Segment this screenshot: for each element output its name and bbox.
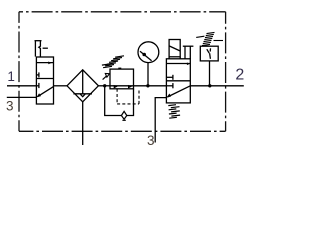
relief valve RV1 [200, 46, 218, 86]
wire V1 out to filter [54, 85, 68, 87]
regulator R1 vent loop [105, 86, 134, 116]
wire V2 out to port 2 [190, 85, 244, 87]
wire filter to regulator [98, 85, 110, 87]
filter F1 (water separator) [67, 70, 98, 102]
svg-text:2: 2 [235, 67, 244, 84]
valve V2 pilot plunger [183, 46, 194, 59]
regulator R1 pilot dashed passage [117, 89, 139, 104]
valve V2 solenoid [169, 40, 180, 59]
wire port1 line [7, 85, 36, 87]
regulator R1 body [110, 69, 134, 89]
regulator R1 top tab [118, 68, 121, 70]
relief valve RV1 spring [196, 32, 223, 45]
node J2 (gauge tap) [146, 84, 149, 87]
valve V1 blocked port T (port 1) [36, 83, 39, 88]
enclosure border (dash-dot) [19, 12, 226, 132]
node J3 (relief tap) [208, 84, 211, 87]
valve V2 top-box flow arrow [166, 63, 190, 66]
svg-text:3: 3 [147, 133, 155, 148]
svg-text:3: 3 [6, 98, 14, 113]
valve V1 detent knob actuator [35, 41, 48, 57]
valve V2 body [166, 59, 190, 103]
gauge G1 [138, 42, 159, 86]
wire regulator to valve V2 [134, 85, 167, 87]
wire filter drain [82, 102, 84, 145]
valve V1 blocked port T (upper) [36, 72, 39, 77]
valve V1 top-box flow arrow [36, 62, 53, 65]
node J1 [103, 84, 106, 87]
valve V1 body [36, 57, 53, 104]
regulator R1 spring [102, 56, 124, 68]
valve V1 exhaust diagonal 2->3 [37, 87, 54, 98]
wire V2 exhaust to port 3 [155, 98, 166, 143]
wire port3 line [7, 96, 37, 98]
valve V2 blocked port T (port 1) [166, 83, 173, 88]
valve V2 exhaust diagonal 2->3 [167, 86, 191, 98]
svg-text:1: 1 [7, 69, 15, 84]
regulator R1 flow arrows [114, 85, 118, 89]
valve V2 blocked port T (upper) [166, 75, 173, 80]
valve V2 return spring [168, 105, 180, 119]
regulator R1 adjust arrow [103, 74, 110, 80]
regulator R1 vent drain valve [121, 111, 126, 120]
gauge G1 hub [142, 53, 146, 57]
